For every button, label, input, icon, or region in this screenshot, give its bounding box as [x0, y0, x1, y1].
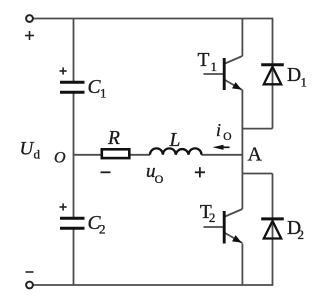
svg-text:2: 2: [99, 222, 106, 237]
svg-text:L: L: [169, 130, 181, 151]
svg-text:D: D: [287, 65, 301, 86]
svg-text:1: 1: [301, 75, 308, 90]
svg-text:2: 2: [298, 227, 305, 242]
svg-text:d: d: [34, 147, 41, 162]
svg-text:O: O: [54, 150, 66, 167]
svg-text:O: O: [155, 172, 164, 186]
svg-text:R: R: [107, 128, 120, 149]
svg-text:O: O: [223, 131, 231, 143]
svg-text:T: T: [198, 50, 210, 71]
svg-text:i: i: [216, 120, 221, 140]
svg-text:1: 1: [100, 86, 107, 101]
svg-text:U: U: [20, 139, 35, 160]
svg-text:2: 2: [209, 210, 216, 225]
svg-text:A: A: [248, 144, 263, 166]
svg-text:1: 1: [211, 59, 218, 74]
